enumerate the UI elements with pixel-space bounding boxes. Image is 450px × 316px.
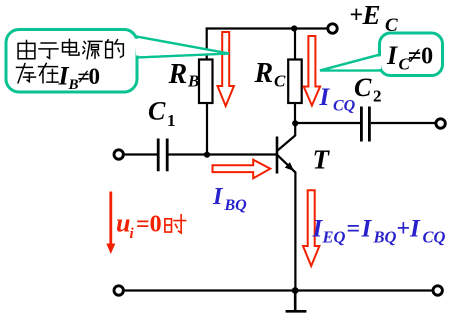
svg-text:0: 0 [89, 64, 101, 89]
svg-text:C: C [148, 97, 166, 126]
svg-text:+: + [397, 216, 411, 242]
label I_C≠0 in bubble (black serif) [386, 41, 433, 74]
wire collector node to C2 [298, 122, 360, 124]
terminal bottom right [433, 286, 442, 295]
terminal input [114, 150, 123, 159]
label 时 (red, drawn strokes) [165, 215, 186, 233]
wire R_C top lead [294, 29, 296, 60]
transistor T base bar [276, 137, 279, 174]
wire R_C bottom lead [294, 103, 296, 123]
arrow IB current (red hollow, down, beside R_B) [218, 32, 234, 106]
arrow IEQ current (red hollow, down, on emitter) [303, 190, 319, 266]
wire C1 to base [169, 153, 277, 155]
terminal output [436, 119, 445, 128]
svg-text:u: u [116, 209, 130, 238]
svg-text:CQ: CQ [423, 228, 446, 247]
callout bubble right [380, 33, 443, 76]
label 存在 (black, drawn strokes) [17, 63, 59, 82]
svg-text:I: I [386, 41, 398, 70]
node collector junction dot [292, 120, 298, 126]
capacitor C1 [158, 139, 167, 172]
wire C2 to output terminal [371, 122, 435, 124]
resistor R_C [288, 60, 302, 104]
node bottom junction dot [292, 287, 299, 294]
svg-text:EQ: EQ [322, 228, 346, 247]
svg-text:B: B [187, 72, 199, 91]
wire R_B top lead [206, 27, 208, 59]
svg-text:I: I [361, 216, 373, 243]
svg-text:I: I [319, 84, 331, 111]
node top rail junction dot [291, 25, 297, 31]
callout bubble left tail [137, 37, 230, 58]
callout bubble right tail [320, 55, 380, 71]
wire input to C1 [124, 153, 157, 155]
arrow IBQ current (red hollow, right, on base wire) [213, 160, 271, 179]
svg-text:I: I [212, 184, 224, 210]
transistor T emitter lead [278, 155, 296, 291]
transistor T emitter arrow [285, 162, 294, 171]
terminal +Ec [328, 24, 337, 33]
wire top horizontal rail [207, 27, 329, 29]
svg-text:I: I [409, 216, 421, 243]
wire bottom rail [124, 289, 433, 291]
svg-text:=: = [347, 216, 361, 242]
ground [286, 291, 307, 312]
callout bubble left [6, 30, 137, 93]
label I_EQ = I_BQ + I_CQ (blue) [312, 216, 446, 247]
svg-text:≠0: ≠0 [408, 44, 433, 70]
svg-text:+: + [350, 3, 364, 29]
label 由于电源的 (black, drawn strokes) [18, 39, 123, 58]
svg-text:T: T [313, 145, 331, 175]
node base junction dot [204, 152, 210, 158]
svg-text:2: 2 [373, 87, 382, 106]
svg-text:E: E [362, 0, 381, 30]
svg-text:R: R [254, 58, 274, 89]
label I_B≠0 in bubble (black serif) [58, 62, 101, 94]
svg-text:=0: =0 [136, 211, 162, 237]
svg-text:BQ: BQ [224, 197, 248, 214]
arrow IC current (red hollow, down, beside R_C) [304, 36, 320, 106]
capacitor C2 [361, 107, 369, 142]
terminal bottom left [114, 286, 123, 295]
resistor R_B [199, 60, 213, 104]
svg-text:C: C [354, 73, 372, 102]
arrow u_i (red, down, at input) [109, 192, 112, 248]
svg-text:BQ: BQ [373, 228, 397, 247]
svg-text:C: C [274, 72, 286, 91]
transistor T collector lead [278, 122, 296, 151]
wire R_B bottom lead [206, 103, 208, 155]
label u_i=0 (red) [116, 209, 162, 243]
svg-text:R: R [168, 59, 188, 90]
svg-text:1: 1 [167, 111, 176, 130]
svg-text:CQ: CQ [333, 98, 356, 115]
